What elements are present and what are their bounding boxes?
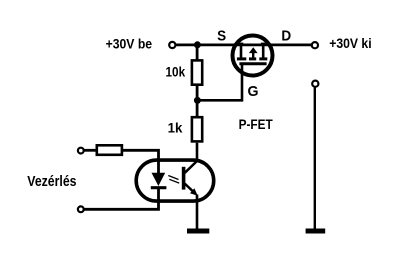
node G junction: [194, 97, 201, 104]
terminal control return: [78, 206, 84, 212]
Q1 drain stub: [262, 45, 265, 58]
diode LED of optocoupler: [152, 173, 166, 186]
svg-text:P-FET: P-FET: [239, 116, 273, 132]
svg-text:Vezérlés: Vezérlés: [27, 173, 76, 190]
wire control to resistor: [85, 149, 97, 152]
ground left: [187, 228, 209, 233]
resistor 1k: [192, 117, 202, 141]
Q1 bulk stub with arrow: [252, 50, 254, 58]
LED cathode bar: [151, 186, 167, 189]
terminal input: [169, 42, 175, 48]
ground right: [306, 228, 326, 233]
wire to 10k: [196, 45, 199, 61]
resistor series control: [97, 145, 122, 155]
optocoupler U1 body: [136, 160, 214, 201]
Q1 gate bar: [239, 62, 266, 65]
svg-text:+30V be: +30V be: [106, 35, 153, 51]
wire 1k to optocoupler collector: [196, 143, 199, 162]
Q1 channel bar bulk: [249, 57, 256, 60]
wire LED cathode to control return: [84, 189, 158, 209]
wire emitter to ground: [196, 195, 199, 230]
phototransistor emitter with arrow: [185, 184, 196, 194]
wire resistor to LED anode: [122, 150, 159, 173]
light coupling arrows: [168, 176, 178, 180]
resistor 10k: [192, 60, 202, 84]
wire gate: [197, 64, 242, 100]
svg-text:D: D: [281, 27, 291, 44]
svg-text:G: G: [248, 83, 259, 100]
wire output return to ground: [314, 87, 316, 229]
svg-text:+30V ki: +30V ki: [329, 35, 371, 51]
node S junction: [194, 41, 201, 48]
phototransistor collector: [185, 160, 198, 173]
terminal output +: [312, 42, 318, 48]
wire S rail: [176, 44, 312, 47]
Q1 channel bar drain: [259, 57, 267, 60]
svg-text:10k: 10k: [166, 63, 186, 79]
transistor Q1 P-FET body circle: [233, 36, 273, 76]
terminal output return: [312, 81, 318, 87]
svg-text:S: S: [217, 27, 226, 44]
Q1 channel bar source: [237, 57, 246, 60]
wire 10k to node G: [196, 85, 199, 116]
phototransistor base bar: [182, 167, 186, 190]
Q1 source stub: [240, 45, 243, 58]
svg-text:1k: 1k: [168, 119, 183, 135]
terminal control +: [78, 148, 84, 154]
